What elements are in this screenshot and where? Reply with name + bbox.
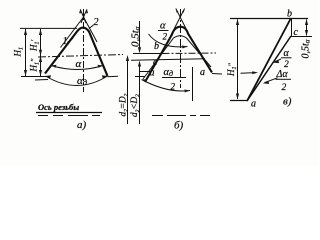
svg-text:α: α <box>284 48 290 59</box>
svg-text:c: c <box>294 27 299 38</box>
svg-text:2: 2 <box>282 83 287 93</box>
svg-text:б): б) <box>174 120 184 132</box>
svg-text:d2<D2: d2<D2 <box>129 94 141 117</box>
svg-text:a: a <box>251 99 256 110</box>
svg-text:b: b <box>154 41 159 52</box>
svg-text:Δα: Δα <box>276 69 289 80</box>
svg-text:d2=D2: d2=D2 <box>118 93 130 116</box>
svg-text:2: 2 <box>94 17 99 28</box>
svg-text:1: 1 <box>63 36 68 47</box>
svg-text:a: a <box>150 68 155 79</box>
svg-text:2: 2 <box>171 82 176 92</box>
svg-text:c: c <box>153 57 158 68</box>
svg-text:Ось резьбы: Ось резьбы <box>38 102 79 112</box>
svg-text:αд: αд <box>164 67 174 78</box>
svg-text:α: α <box>160 21 166 32</box>
svg-text:а): а) <box>77 119 87 131</box>
svg-text:a: a <box>200 67 205 78</box>
svg-text:αд: αд <box>77 75 88 87</box>
svg-text:2: 2 <box>163 32 168 42</box>
svg-text:b: b <box>287 9 292 20</box>
svg-text:в): в) <box>283 96 292 108</box>
svg-text:α: α <box>76 58 82 70</box>
